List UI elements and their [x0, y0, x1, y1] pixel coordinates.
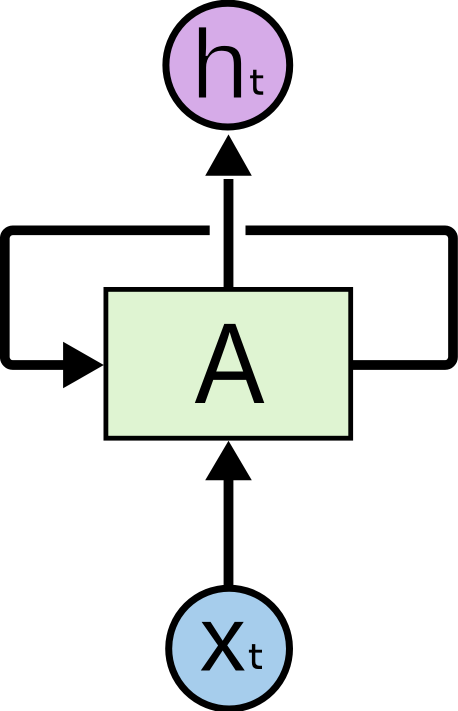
arrowhead: into bottom of block A [205, 441, 252, 480]
wire: recurrent loop right segment (box right to top, ending at gap right edge) [246, 230, 454, 365]
arrowhead: loop into left side of block A [63, 342, 104, 389]
block A (RNN cell) [106, 289, 351, 438]
svg-text:h: h [191, 9, 249, 120]
arrowhead: into h_t circle [205, 134, 252, 175]
node x_t (input circle) [169, 588, 290, 709]
wire: vertical shaft from x_t up toward block A [224, 477, 234, 588]
wire: vertical shaft from block A up toward h_t [224, 179, 234, 289]
label x_t [200, 589, 246, 691]
svg-text:x: x [200, 589, 246, 691]
label h_t [191, 9, 249, 120]
label A [195, 300, 265, 428]
wire: recurrent loop left segment (gap left edge across top, down left side, to arrowhead) [5, 230, 210, 365]
node h_t (output circle) [166, 3, 290, 127]
svg-text:A: A [195, 300, 265, 428]
